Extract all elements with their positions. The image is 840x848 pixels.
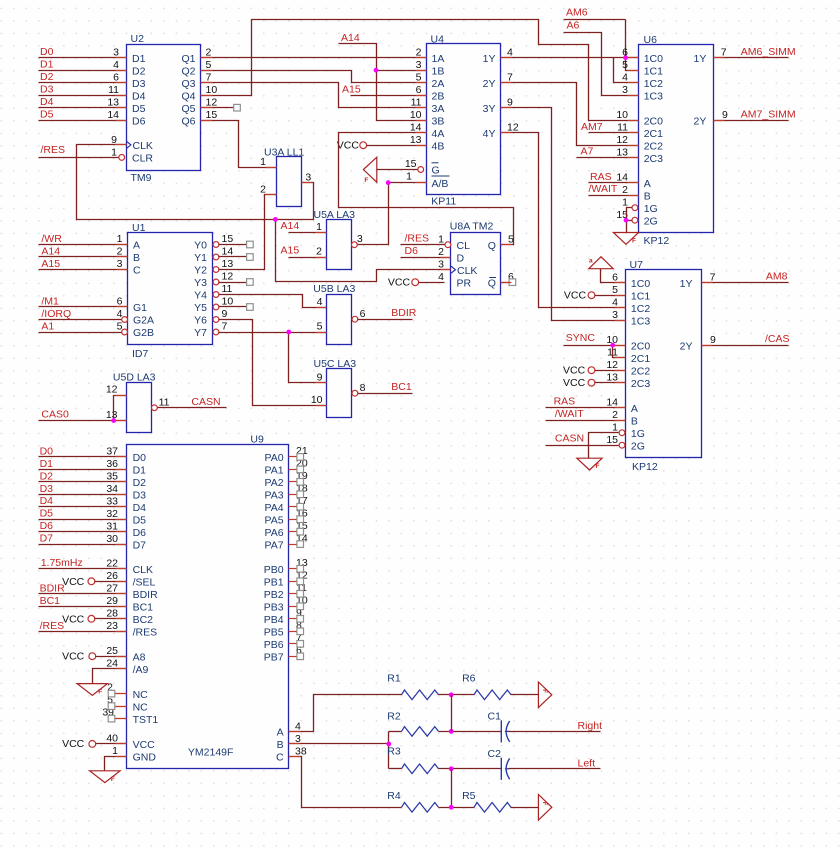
svg-text:A8: A8	[133, 651, 146, 663]
svg-text:A1: A1	[41, 320, 54, 332]
U5D pin numbers	[106, 384, 170, 422]
no-connect square U9.PA7	[297, 541, 304, 548]
wire R1 node to R2 node	[451, 695, 453, 732]
svg-text:G2B: G2B	[133, 327, 154, 339]
svg-text:1C0: 1C0	[631, 278, 650, 290]
wire Right out	[509, 731, 601, 733]
svg-text:3: 3	[305, 171, 311, 183]
VCC port circle VCC U9.BC2	[88, 615, 95, 622]
svg-text:2: 2	[260, 183, 266, 195]
wire CAS0 branch to U5D.12	[114, 396, 127, 421]
inverting bubble U5D.11	[152, 405, 158, 411]
svg-text:A15: A15	[281, 245, 300, 257]
inverting bubble U6.2G	[632, 217, 638, 223]
svg-text:F: F	[364, 177, 368, 184]
svg-text:22: 22	[106, 558, 118, 570]
svg-text:36: 36	[106, 458, 118, 470]
svg-text:AM8: AM8	[766, 270, 788, 282]
svg-text:D1: D1	[133, 465, 147, 477]
svg-text:R1: R1	[387, 672, 401, 684]
svg-text:YM2149F: YM2149F	[188, 747, 234, 759]
wire U9.TST1 stub	[115, 718, 127, 720]
resistor R2	[402, 727, 439, 737]
wire A1 to U1.G2B	[39, 332, 125, 334]
wire U9.PA5 stub	[289, 519, 297, 521]
svg-text:VCC: VCC	[62, 613, 85, 625]
wire Y7 branch to U5C.9	[289, 333, 327, 383]
wire net D5 to U2.D6	[39, 120, 127, 122]
svg-text:KP12: KP12	[644, 235, 670, 247]
wire R3 node to R4 node	[451, 769, 453, 808]
no-connect square U9.PB0	[297, 566, 304, 573]
svg-text:CASN: CASN	[191, 396, 220, 408]
svg-text:4: 4	[317, 296, 323, 308]
svg-text:9: 9	[710, 334, 716, 346]
svg-text:KP11: KP11	[431, 196, 456, 208]
svg-text:3: 3	[438, 258, 444, 270]
svg-text:12: 12	[616, 134, 628, 146]
svg-text:7: 7	[507, 71, 513, 83]
svg-text:B: B	[631, 415, 638, 427]
svg-text:VCC: VCC	[62, 651, 85, 663]
svg-text:1Y: 1Y	[483, 53, 496, 65]
svg-text:2C0: 2C0	[631, 340, 650, 352]
wire U9.NC2 stub	[115, 693, 127, 695]
svg-text:F: F	[632, 238, 636, 245]
svg-text:2: 2	[612, 409, 618, 421]
svg-text:D5: D5	[40, 508, 54, 520]
inverting bubble U1.G2A	[122, 317, 128, 323]
svg-text:/IORQ: /IORQ	[41, 308, 71, 320]
svg-text:12: 12	[106, 384, 118, 396]
svg-text:15: 15	[606, 434, 618, 446]
svg-text:D4: D4	[40, 96, 54, 108]
svg-text:14: 14	[616, 171, 628, 183]
svg-text:Y7: Y7	[194, 327, 207, 339]
VCC port circle VCC U7.2C3	[588, 379, 595, 386]
inverting bubble U6.1G	[632, 205, 638, 211]
U4 pin numbers right 4 7 9 12	[507, 46, 519, 133]
svg-text:6: 6	[622, 46, 628, 58]
svg-text:1C2: 1C2	[644, 78, 663, 90]
svg-text:PB0: PB0	[264, 564, 284, 576]
svg-text:/RES: /RES	[133, 627, 158, 639]
svg-text:AM7_SIMM: AM7_SIMM	[741, 109, 796, 121]
inverting bubble U1.Y0	[213, 242, 219, 248]
svg-text:13: 13	[616, 146, 628, 158]
VCC port circle VCC U7.1C1	[588, 292, 595, 299]
svg-text:SYNC: SYNC	[566, 332, 596, 344]
svg-text:A6: A6	[567, 19, 580, 31]
wire into U6.1C0	[626, 57, 639, 59]
U5C pin numbers	[311, 372, 366, 407]
no-connect square U9.PA6	[297, 528, 304, 535]
svg-text:10: 10	[311, 394, 323, 406]
junction 1G/2G junction	[624, 218, 629, 223]
svg-text:PR: PR	[457, 277, 472, 289]
svg-text:2C1: 2C1	[631, 353, 650, 365]
svg-text:Q6: Q6	[181, 115, 195, 127]
svg-text:R5: R5	[462, 790, 476, 802]
wire AM7 to U6.2C1	[589, 132, 639, 134]
svg-text:Y6: Y6	[194, 315, 207, 327]
wire /IORQ to U1.G2A	[39, 319, 125, 321]
no-connect square U8A.Qbar	[509, 279, 516, 286]
ground at U6 1G/2G	[613, 233, 638, 245]
svg-text:Y0: Y0	[194, 240, 207, 252]
svg-text:4B: 4B	[432, 140, 445, 152]
wire VCC to U9.BC2	[95, 618, 127, 620]
svg-text:U6: U6	[644, 34, 658, 46]
inverting bubble U1.Y5	[213, 304, 219, 310]
svg-text:D2: D2	[133, 477, 147, 489]
svg-text:2: 2	[622, 184, 628, 196]
svg-text:KP12: KP12	[632, 461, 658, 473]
svg-text:1C3: 1C3	[631, 315, 650, 327]
no-connect square U9.PB1	[297, 578, 304, 585]
svg-text:6: 6	[113, 71, 119, 83]
svg-text:U8A TM2: U8A TM2	[450, 221, 494, 233]
wire D6 to U8A.D	[401, 257, 451, 259]
svg-text:TST1: TST1	[133, 714, 159, 726]
inverting bubble U1.Y7	[213, 329, 219, 335]
junction SYNC branch	[610, 343, 615, 348]
svg-text:PA3: PA3	[265, 489, 284, 501]
wire /RES to U8A.CL	[401, 244, 445, 246]
wire U8A.Qbar stub	[501, 282, 510, 284]
svg-text:D7: D7	[40, 533, 54, 545]
wire U9.PA0 stub	[289, 456, 297, 458]
U2 pin numbers left 3 4 6 11 13 14 9 1	[107, 46, 119, 158]
svg-text:2: 2	[206, 46, 212, 58]
no-connect square U9.PA1	[297, 466, 304, 473]
svg-text:37: 37	[106, 446, 118, 458]
IC U6 KP12 dual 4-input multiplexer	[639, 34, 714, 247]
svg-text:Q2: Q2	[181, 65, 195, 77]
svg-text:D6: D6	[405, 245, 419, 257]
no-connect square U9.PA4	[297, 503, 304, 510]
svg-text:/WAIT: /WAIT	[589, 183, 618, 195]
wire /WR to U1	[39, 244, 128, 246]
svg-text:10: 10	[410, 109, 422, 121]
svg-text:D2: D2	[132, 65, 146, 77]
svg-text:29: 29	[106, 595, 118, 607]
wire U1.Y3 stub	[219, 282, 247, 284]
svg-text:TM9: TM9	[131, 172, 152, 184]
svg-text:C1: C1	[488, 710, 502, 722]
svg-text:14: 14	[107, 109, 119, 121]
svg-text:A7: A7	[581, 146, 594, 158]
svg-text:1: 1	[612, 421, 618, 433]
svg-text:BC1: BC1	[133, 602, 154, 614]
inverting bubble U2.CLR	[119, 155, 125, 161]
svg-text:D7: D7	[133, 539, 147, 551]
svg-text:11: 11	[411, 96, 422, 108]
U6 pin numbers	[616, 46, 728, 221]
wire A15 to U5A.2	[289, 257, 327, 259]
wire VCC to U9.VCC	[96, 743, 127, 745]
U5A pin numbers	[316, 221, 363, 257]
svg-text:2Y: 2Y	[483, 78, 496, 90]
svg-text:15: 15	[222, 233, 234, 245]
IC U7 KP12 dual 4-input multiplexer	[626, 259, 702, 473]
svg-text:CLK: CLK	[133, 140, 153, 152]
wire CAS0 to U5D.13	[39, 420, 127, 422]
svg-text:D5: D5	[133, 514, 147, 526]
svg-text:RAS: RAS	[554, 396, 576, 408]
resistor R5	[474, 803, 511, 813]
power arrow arrow at R5	[538, 795, 551, 821]
wire D1 to U9	[39, 469, 127, 471]
svg-text:NC: NC	[133, 689, 149, 701]
svg-text:27: 27	[106, 583, 118, 595]
svg-text:U9: U9	[250, 433, 264, 445]
svg-text:10: 10	[206, 84, 218, 96]
capacitor C1	[500, 720, 502, 742]
svg-text:D2: D2	[40, 470, 54, 482]
svg-text:1C0: 1C0	[644, 53, 663, 65]
svg-text:D3: D3	[40, 483, 54, 495]
wire SYNC branch to U7.2C1	[613, 346, 626, 358]
wire VCC to U9./SEL	[95, 581, 127, 583]
svg-text:12: 12	[222, 271, 234, 283]
wire U6.1G tie	[627, 208, 632, 233]
U4 pin numbers left 2 3 5 6 11 10 14 13 15 1	[405, 46, 422, 182]
svg-text:Y4: Y4	[194, 290, 207, 302]
wire U1.Y4 to U5B.4	[219, 295, 327, 308]
svg-text:A: A	[277, 727, 284, 739]
wire U9.PA2 stub	[289, 481, 297, 483]
svg-text:40: 40	[106, 733, 118, 745]
svg-text:3B: 3B	[432, 115, 445, 127]
wire BC1 to U9	[39, 606, 127, 608]
svg-text:D0: D0	[40, 46, 54, 58]
svg-text:6: 6	[612, 271, 618, 283]
power arrow port at U4.G	[363, 157, 376, 182]
svg-text:VCC: VCC	[563, 377, 586, 389]
wire A7 to U6.2C3	[577, 157, 639, 159]
wire U1.Y6 to U5C.10	[219, 320, 327, 406]
svg-text:Q4: Q4	[181, 90, 195, 102]
wire U2.Q1 to U4.1A	[201, 57, 427, 59]
svg-text:2: 2	[316, 246, 322, 258]
svg-text:3: 3	[357, 233, 363, 245]
wire SYNC to U7.2C0	[564, 345, 626, 347]
wire U1.Y0 stub	[219, 244, 247, 246]
svg-text:4: 4	[438, 271, 444, 283]
inverting bubble U1.Y6	[213, 317, 219, 323]
wire U9.C to R4	[289, 757, 402, 808]
svg-text:BDIR: BDIR	[391, 307, 417, 319]
resistor R6	[474, 690, 511, 700]
inverting bubble U5C.8	[352, 390, 358, 396]
svg-text:Q1: Q1	[181, 53, 195, 65]
svg-text:R3: R3	[387, 745, 401, 757]
no-connect square Y5	[247, 304, 254, 311]
wire U1.Y7 to U5B.5	[219, 332, 327, 334]
junction R1/R6 node	[449, 692, 454, 697]
svg-text:2C0: 2C0	[644, 115, 663, 127]
svg-text:Left: Left	[578, 757, 596, 769]
svg-text:30: 30	[106, 533, 118, 545]
svg-text:3: 3	[113, 46, 119, 58]
svg-text:U5C LA3: U5C LA3	[314, 358, 357, 370]
no-connect square U9.PB4	[297, 616, 304, 623]
svg-text:A15: A15	[41, 258, 60, 270]
junction A14/1B junction	[374, 68, 379, 73]
svg-text:25: 25	[106, 645, 118, 657]
no-connect square Y3	[247, 279, 254, 286]
wire U9.PB1 stub	[289, 581, 297, 583]
wire U9./A9 to gnd	[93, 669, 127, 684]
svg-text:D0: D0	[40, 445, 54, 457]
wire VCC to U4.4B	[367, 145, 427, 147]
svg-text:PB1: PB1	[264, 577, 284, 589]
svg-text:/RES: /RES	[40, 620, 65, 632]
wire U2.Q6 to U3A.1	[201, 121, 277, 168]
wire U1.Y5 stub	[219, 306, 247, 308]
svg-text:VCC: VCC	[388, 277, 411, 289]
svg-text:1Y: 1Y	[680, 278, 693, 290]
svg-text:NC: NC	[133, 701, 149, 713]
U9 pin numbers right	[295, 445, 308, 757]
svg-text:3: 3	[117, 258, 123, 270]
wire U4.4Y to U7.1C2	[501, 133, 626, 308]
VCC port circle VCC U9.A8	[89, 653, 96, 660]
VCC port circle VCC U4.4B	[360, 142, 367, 149]
svg-text:BC1: BC1	[40, 595, 61, 607]
svg-text:/SEL: /SEL	[133, 577, 156, 589]
svg-text:PA7: PA7	[265, 539, 284, 551]
no-connect square Y1	[247, 254, 254, 261]
svg-text:U5B LA3: U5B LA3	[313, 283, 355, 295]
wire U2.Q3 to U4.3A	[201, 83, 427, 108]
svg-text:7: 7	[222, 321, 228, 333]
svg-text:4A: 4A	[432, 128, 445, 140]
wire 1.75mHz to U9.CLK	[39, 568, 127, 570]
no-connect square U9.TST1	[108, 715, 115, 722]
svg-text:1C3: 1C3	[644, 90, 663, 102]
svg-text:F: F	[541, 689, 547, 693]
svg-text:1: 1	[622, 196, 628, 208]
svg-text:5: 5	[612, 284, 618, 296]
svg-text:AM7: AM7	[581, 121, 603, 133]
wire A15 to U1	[39, 269, 128, 271]
svg-text:5: 5	[508, 233, 514, 245]
wire U9.PB3 stub	[289, 606, 297, 608]
no-connect square U9.PA5	[297, 516, 304, 523]
wire U4.2Y to U6.2C2	[501, 83, 639, 146]
svg-text:2: 2	[416, 46, 422, 58]
svg-text:5: 5	[317, 321, 323, 333]
junction CAS0 branch	[111, 418, 116, 423]
svg-text:BC2: BC2	[133, 614, 154, 626]
junction Y7 branch	[286, 330, 291, 335]
svg-text:1A: 1A	[432, 53, 445, 65]
wire U2.Q4 to U6.2C0	[201, 20, 639, 121]
svg-text:11: 11	[108, 84, 119, 96]
wire U9.GND to gnd	[105, 757, 127, 771]
wire U9.A to R1	[289, 695, 402, 732]
wire VCC to U7.2C3	[595, 382, 626, 384]
inverting bubble U1.Y2	[213, 267, 219, 273]
ground at U9.GND	[90, 771, 120, 783]
svg-text:2A: 2A	[432, 78, 445, 90]
svg-text:12: 12	[206, 96, 218, 108]
svg-text:Q3: Q3	[181, 78, 195, 90]
svg-text:15: 15	[405, 158, 417, 170]
wire RAS to U6.A	[589, 182, 639, 184]
svg-text:35: 35	[106, 471, 118, 483]
svg-text:23: 23	[106, 620, 118, 632]
svg-text:A14: A14	[41, 245, 60, 257]
wire to R3	[389, 768, 402, 770]
wire R3 to C2	[439, 768, 502, 770]
svg-text:9: 9	[222, 308, 228, 320]
gate U3A LL1	[264, 146, 304, 206]
wire U7.2Y out	[702, 345, 789, 347]
inverting bubble U1.Y4	[213, 292, 219, 298]
wire A14 to U5A.1	[289, 232, 327, 234]
svg-text:F: F	[98, 689, 102, 696]
svg-text:VCC: VCC	[133, 739, 156, 751]
svg-text:12: 12	[606, 359, 618, 371]
svg-text:1C2: 1C2	[631, 303, 650, 315]
svg-text:CASN: CASN	[555, 432, 584, 444]
svg-text:Y5: Y5	[194, 302, 207, 314]
svg-text:3Y: 3Y	[483, 103, 496, 115]
svg-text:AM6_SIMM: AM6_SIMM	[741, 46, 796, 58]
ground at U9./A9	[77, 684, 107, 696]
svg-text:1: 1	[406, 170, 412, 182]
wire U9.PA4 stub	[289, 506, 297, 508]
svg-text:1: 1	[316, 221, 322, 233]
no-connect square U9.PB5	[297, 628, 304, 635]
IC U8A TM2 D flip-flop	[450, 221, 501, 295]
svg-text:VCC: VCC	[564, 290, 587, 302]
junction R2/C1 node	[449, 729, 454, 734]
svg-text:1: 1	[112, 745, 118, 757]
svg-text:4: 4	[507, 46, 513, 58]
wire /WAIT to U6.B	[589, 195, 639, 197]
svg-text:CL: CL	[457, 240, 471, 252]
svg-text:BDIR: BDIR	[40, 582, 66, 594]
svg-text:D3: D3	[132, 78, 146, 90]
svg-text:11: 11	[222, 283, 233, 295]
wire /M1 to U1.G1	[39, 306, 128, 308]
svg-text:PB2: PB2	[264, 589, 284, 601]
no-connect square U2.Q5	[234, 104, 241, 111]
inverting bubble U1.G2B	[122, 329, 128, 335]
wire net D0 to U2.D1	[39, 57, 127, 59]
svg-text:B: B	[644, 190, 651, 202]
U9 pin numbers left	[102, 446, 118, 757]
wire A15 to U4.2B	[351, 95, 427, 97]
resistor R1	[402, 690, 439, 700]
svg-text:D2: D2	[40, 71, 54, 83]
svg-text:U5D LA3: U5D LA3	[113, 371, 156, 383]
svg-text:PA6: PA6	[265, 527, 284, 539]
svg-text:PB6: PB6	[264, 639, 284, 651]
gate U5A LA3	[314, 209, 356, 270]
wire D5 to U9	[39, 519, 127, 521]
svg-text:D6: D6	[40, 520, 54, 532]
VCC port circle VCC U9.VCC	[89, 741, 96, 748]
wire U9.B wire	[289, 743, 389, 745]
svg-text:A14: A14	[341, 32, 360, 44]
no-connect square U9.PB7	[297, 653, 304, 660]
svg-text:C2: C2	[488, 748, 502, 760]
